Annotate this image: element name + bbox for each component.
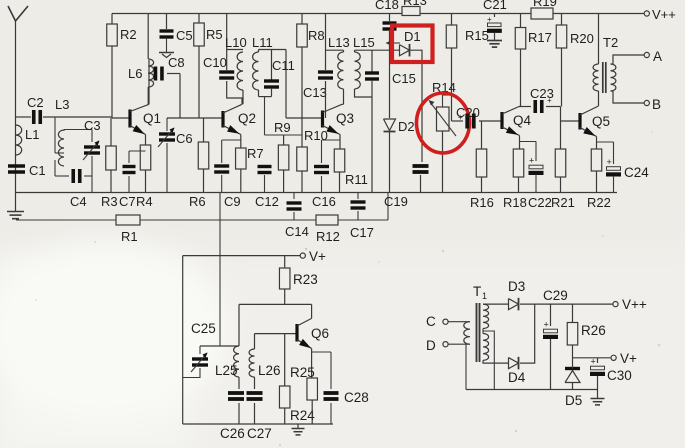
capacitor C14 [293, 193, 295, 200]
terminal V+ (left) [300, 253, 305, 258]
svg-text:R3: R3 [101, 194, 118, 209]
wire Q5 collector riser [598, 91, 600, 106]
wire oscillator loop top [239, 303, 312, 305]
variable capacitor C6 [166, 118, 168, 131]
svg-text:C9: C9 [224, 194, 241, 209]
inductor L25 [234, 346, 239, 377]
wire Q1 collector riser [148, 60, 150, 104]
wire Q3 emitter drop [339, 135, 341, 150]
wire Q2 emitter drop [240, 135, 242, 149]
wire C24 tie [597, 141, 614, 143]
ground (below C30) [597, 376, 599, 399]
wire C13 bus drop [325, 14, 327, 71]
svg-text:R8: R8 [308, 28, 325, 43]
ground (left, below bus) [15, 193, 17, 212]
svg-text:+: + [547, 96, 552, 105]
svg-text:Q5: Q5 [592, 114, 610, 129]
svg-text:R24: R24 [290, 408, 315, 423]
inductor L3 tank coil [58, 130, 64, 166]
svg-text:C24: C24 [624, 165, 649, 180]
svg-text:C29: C29 [543, 288, 568, 303]
wire C4 to bus [91, 176, 93, 193]
resistor R3 [110, 118, 112, 146]
wire to terminal B [611, 91, 645, 103]
svg-text:V++: V++ [652, 7, 676, 22]
ground (below C21) [494, 33, 496, 41]
svg-text:A: A [653, 49, 662, 64]
wire C to primary [448, 321, 466, 323]
svg-text:C28: C28 [344, 390, 369, 405]
svg-text:C2: C2 [27, 95, 44, 110]
svg-text:R26: R26 [581, 323, 606, 338]
wire Q6 collector riser [311, 304, 313, 318]
capacitor C20 [452, 120, 464, 122]
svg-text:L3: L3 [55, 97, 69, 112]
diode D4 [509, 358, 519, 369]
wire C7 tie [129, 150, 146, 152]
wire left vertical to ground [15, 117, 17, 193]
resistor R18 [513, 149, 524, 177]
wire L13 to Q3 collector [343, 89, 345, 104]
wire Q3 base [286, 117, 323, 119]
svg-text:B: B [652, 97, 661, 112]
wire center tap [484, 331, 495, 390]
capacitor C10 [226, 14, 228, 71]
wire secondary bottom to D4 [482, 329, 484, 334]
terminal A [644, 52, 649, 57]
wire V+ line [573, 357, 612, 359]
capacitor C5 [166, 14, 168, 30]
wire R1 horizontal [16, 219, 116, 221]
wire R14 top tie [443, 94, 452, 96]
resistor R26 [572, 304, 574, 322]
capacitor C15 [371, 50, 373, 72]
svg-text:C8: C8 [168, 55, 185, 70]
svg-text:R1: R1 [121, 229, 138, 244]
wire feed from top section [219, 193, 221, 347]
capacitor C13 [318, 70, 333, 73]
wire oscillator bottom rail [183, 423, 333, 425]
svg-text:R17: R17 [528, 30, 552, 45]
wire Q6 emitter drop [311, 349, 313, 379]
svg-text:R4: R4 [136, 194, 153, 209]
inductor L15 [354, 50, 356, 52]
capacitor C9 [214, 164, 229, 167]
svg-text:Q1: Q1 [143, 111, 161, 126]
wire Q1 base [112, 117, 130, 119]
svg-text:C13: C13 [303, 85, 327, 100]
inductor L26 [254, 334, 256, 349]
svg-text:C11: C11 [272, 58, 295, 73]
svg-text:+: + [607, 157, 612, 167]
diode D5 (zener) [565, 367, 580, 370]
transistor Q1 [128, 110, 131, 128]
diode D3 [509, 299, 519, 310]
svg-text:+: + [591, 357, 596, 367]
capacitor C1 [8, 164, 25, 167]
transformer T1 core [476, 303, 478, 362]
svg-text:V+: V+ [309, 249, 326, 264]
svg-text:R2: R2 [120, 27, 137, 42]
svg-text:R18: R18 [503, 195, 527, 210]
svg-text:C4: C4 [70, 194, 87, 209]
capacitor C29 [550, 304, 552, 326]
resistor R12 (series) [316, 215, 338, 225]
capacitor C21 [494, 14, 496, 18]
svg-text:C15: C15 [392, 71, 416, 86]
antenna [8, 6, 28, 21]
resistor R23 [284, 256, 286, 268]
wire D1 output [411, 50, 423, 162]
capacitor C7 [123, 165, 136, 168]
capacitor C17 [357, 193, 359, 200]
svg-text:Q2: Q2 [238, 111, 256, 126]
svg-text:L26: L26 [258, 363, 281, 378]
svg-text:R15: R15 [465, 28, 489, 43]
svg-text:C19: C19 [384, 194, 408, 209]
svg-text:C3: C3 [84, 118, 101, 133]
resistor R6 [203, 118, 205, 142]
svg-text:Q4: Q4 [513, 113, 532, 128]
svg-text:C6: C6 [176, 131, 193, 146]
resistor R7 [236, 148, 247, 169]
transistor Q3 [321, 111, 324, 128]
wire psu bottom rail [466, 389, 598, 391]
capacitor C16 [314, 165, 329, 168]
svg-text:R11: R11 [345, 172, 368, 187]
wire L15 bottom [355, 89, 373, 97]
capacitor C11 [271, 50, 273, 81]
wire L11 bottom chain [258, 90, 260, 97]
diode D1 [400, 45, 410, 56]
wire tank bottom [55, 175, 69, 177]
wire secondary top to D3 [483, 303, 509, 305]
svg-text:T: T [473, 284, 481, 299]
wire Q5 emitter drop [596, 137, 598, 150]
svg-text:L6: L6 [128, 66, 142, 81]
wire coupling drop to Q3 base [285, 50, 287, 119]
svg-text:R23: R23 [293, 272, 318, 287]
svg-text:L1: L1 [25, 127, 39, 142]
resistor R4 [140, 145, 151, 170]
svg-text:D: D [426, 338, 436, 353]
svg-text:R16: R16 [470, 195, 494, 210]
svg-text:R7: R7 [247, 146, 264, 161]
transformer T1 primary [466, 321, 470, 323]
svg-text:+: + [529, 156, 534, 166]
terminal V++ (psu) [613, 302, 618, 307]
wire top supply bus [112, 13, 402, 15]
svg-text:C27: C27 [247, 426, 272, 441]
transistor Q6 [295, 324, 298, 342]
capacitor C4 [71, 169, 75, 183]
wire D return to rail [465, 344, 467, 389]
svg-text:Q3: Q3 [336, 111, 354, 126]
wire tank top [200, 345, 239, 347]
svg-text:C10: C10 [203, 55, 227, 70]
annotation arrow near D1 [387, 42, 400, 44]
resistor R9 [283, 135, 285, 145]
resistor R10 [301, 135, 303, 147]
wire to terminal A [611, 55, 645, 64]
capacitor C2 [32, 110, 36, 124]
resistor R15 [451, 14, 453, 26]
ground (below C5) [166, 38, 168, 53]
resistor R5 [198, 14, 200, 24]
capacitor C28 [324, 391, 339, 395]
wire input horizontal [16, 116, 32, 118]
resistor R17 [520, 14, 522, 28]
transistor Q4 [500, 112, 503, 129]
svg-text:R6: R6 [189, 194, 206, 209]
transformer T1 secondary lower [483, 334, 489, 361]
terminal V+ (psu) [611, 355, 616, 360]
wire C10 to Q2 collector [227, 81, 242, 104]
wire Q2 base [167, 117, 223, 119]
wire Q6 base [255, 333, 297, 335]
terminal B [644, 100, 649, 105]
svg-text:L25: L25 [215, 363, 238, 378]
wire D4 riser [520, 304, 535, 363]
wire C16 tie [322, 139, 341, 141]
svg-text:L10: L10 [225, 35, 247, 50]
capacitor C12 [258, 165, 272, 168]
svg-text:C22: C22 [528, 195, 552, 210]
potentiometer R14 [437, 107, 450, 131]
svg-text:C: C [426, 314, 436, 329]
resistor R13 (series in bus) [402, 7, 420, 16]
inductor L10 [227, 49, 243, 51]
wire C12 drop from tank [264, 97, 266, 135]
svg-text:L15: L15 [353, 35, 375, 50]
resistor R21 [560, 121, 562, 149]
svg-text:R19: R19 [533, 0, 557, 9]
resistor R1 [116, 215, 140, 225]
wire V+ horizontal [183, 255, 301, 257]
resistor R25 [307, 378, 318, 400]
svg-text:R5: R5 [206, 27, 223, 42]
svg-text:C12: C12 [255, 194, 279, 209]
inductor L11 [253, 52, 259, 90]
svg-text:C14: C14 [285, 224, 309, 239]
capacitor C30 [597, 358, 599, 363]
wire R9 R10 tie [265, 134, 303, 136]
transformer T1 secondary upper [483, 304, 489, 328]
node L3 tank drop [54, 117, 56, 153]
wire left rail down [182, 256, 184, 424]
svg-text:R12: R12 [316, 229, 340, 244]
svg-text:R20: R20 [570, 31, 594, 46]
capacitor C8 [150, 73, 152, 75]
scan specks [305, 248, 307, 250]
svg-text:R13: R13 [403, 0, 427, 8]
resistor R2 [111, 14, 113, 25]
svg-text:D2: D2 [398, 119, 415, 134]
svg-text:V+: V+ [620, 351, 637, 366]
red annotation ellipse around R14 [417, 93, 470, 153]
wire C28 tie [312, 351, 331, 353]
wire L13 top [326, 49, 344, 51]
transistor Q5 [578, 113, 581, 130]
svg-text:C1: C1 [29, 163, 46, 178]
wire C8 drop [179, 74, 181, 119]
svg-text:R21: R21 [551, 195, 575, 210]
wire detector line [355, 49, 401, 51]
wire Q4 emitter drop [519, 136, 521, 150]
svg-text:C7: C7 [119, 194, 136, 209]
capacitor C19 [413, 164, 429, 168]
svg-text:C30: C30 [607, 368, 632, 383]
svg-text:C17: C17 [350, 225, 374, 240]
variable capacitor C25 [199, 346, 201, 354]
svg-text:+: + [458, 113, 463, 122]
wire C9 tie [222, 139, 241, 141]
wire top ground bus [16, 192, 618, 194]
svg-text:R22: R22 [587, 195, 611, 210]
capacitor C23 [519, 106, 531, 108]
svg-text:L11: L11 [252, 35, 273, 50]
svg-text:C25: C25 [191, 321, 216, 336]
ground (oscillator) [297, 424, 299, 429]
wire L11 top elbow [259, 49, 287, 51]
svg-text:C18: C18 [375, 0, 399, 12]
resistor R8 [301, 14, 303, 25]
resistor R20 [561, 14, 563, 26]
svg-text:D4: D4 [508, 370, 526, 385]
wire Q5 base [561, 120, 581, 122]
inductor L1 [16, 125, 22, 155]
svg-text:L13: L13 [328, 35, 350, 50]
svg-text:1: 1 [482, 291, 487, 301]
svg-text:C16: C16 [312, 194, 336, 209]
inductor L6 [148, 59, 153, 87]
wire Q1 emitter drop [145, 135, 147, 146]
red annotation rectangle around D1 [392, 26, 433, 63]
capacitor C26 [238, 377, 240, 389]
resistor R11 [334, 149, 345, 172]
svg-text:D1: D1 [404, 29, 421, 44]
svg-text:R10: R10 [304, 128, 328, 143]
resistor R22 [591, 149, 602, 171]
wire loop left drop [238, 304, 240, 346]
capacitor C18 [389, 14, 391, 22]
wire R20 C23 node [560, 107, 562, 122]
svg-text:R25: R25 [290, 365, 315, 380]
wire tank top [64, 129, 92, 131]
wire D to primary [448, 343, 466, 345]
resistor R19 (series in bus) [531, 8, 553, 19]
svg-text:D3: D3 [508, 279, 525, 294]
svg-text:R9: R9 [274, 120, 291, 135]
svg-text:Q6: Q6 [311, 326, 329, 341]
svg-text:C21: C21 [483, 0, 507, 12]
terminal V++ (top) [644, 11, 649, 16]
inductor L13 [338, 52, 344, 89]
svg-text:+: + [544, 320, 549, 330]
wire antenna stem [15, 21, 17, 117]
svg-text:D5: D5 [565, 393, 582, 408]
diode D2 [384, 119, 396, 131]
wire C22 tie [520, 141, 537, 143]
svg-text:C26: C26 [220, 426, 245, 441]
svg-text:C5: C5 [176, 28, 193, 43]
wire bus to V++ terminal [553, 13, 645, 15]
svg-text:V++: V++ [622, 297, 647, 312]
wire D2 below bus to R1 line [387, 193, 389, 221]
capacitor C27 [254, 377, 256, 389]
resistor R16 [481, 121, 483, 149]
transistor Q2 [221, 111, 224, 128]
svg-text:T2: T2 [603, 35, 618, 50]
variable capacitor C3 [91, 130, 93, 143]
resistor R24 [284, 334, 286, 386]
